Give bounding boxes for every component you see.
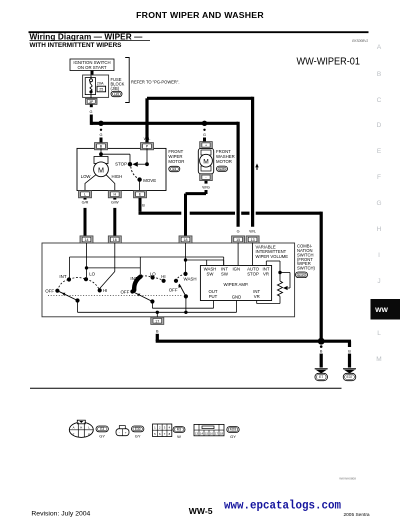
svg-text:WKWA0808: WKWA0808 xyxy=(339,477,356,481)
svg-text:Revision: July 2004: Revision: July 2004 xyxy=(31,511,90,518)
svg-text:B: B xyxy=(320,349,323,353)
svg-text:G: G xyxy=(90,110,93,114)
svg-text:17: 17 xyxy=(155,319,159,323)
svg-text:G: G xyxy=(203,133,206,137)
svg-text:WW-5: WW-5 xyxy=(189,506,213,516)
svg-text:C: C xyxy=(377,97,382,104)
svg-text:3P: 3P xyxy=(89,100,94,104)
svg-text:B: B xyxy=(142,203,145,207)
svg-text:W/G: W/G xyxy=(202,185,210,189)
svg-text:M3: M3 xyxy=(177,428,182,432)
svg-text:J: J xyxy=(377,278,380,285)
svg-text:G: G xyxy=(100,137,103,141)
svg-text:OFF: OFF xyxy=(169,288,178,293)
svg-text:WIPER VOLUME: WIPER VOLUME xyxy=(256,254,289,259)
svg-text:STOP: STOP xyxy=(115,162,127,167)
svg-text:14: 14 xyxy=(85,238,89,242)
svg-text:L: L xyxy=(84,193,86,197)
svg-text:W: W xyxy=(177,434,181,439)
svg-text:IGN: IGN xyxy=(232,267,240,272)
svg-text:WW-WIPER-01: WW-WIPER-01 xyxy=(297,57,361,68)
svg-text:A: A xyxy=(73,426,75,430)
svg-text:GY: GY xyxy=(99,433,105,438)
svg-text:P: P xyxy=(88,432,90,436)
svg-text:HI: HI xyxy=(161,274,165,279)
svg-text:H: H xyxy=(113,193,116,197)
svg-text:G/R: G/R xyxy=(82,200,89,204)
svg-text:E115: E115 xyxy=(298,273,305,277)
svg-text:(J/B): (J/B) xyxy=(111,86,120,91)
svg-text:W/L: W/L xyxy=(144,137,151,141)
svg-text:I: I xyxy=(378,252,380,259)
svg-text:GND: GND xyxy=(232,294,242,299)
svg-text:VR: VR xyxy=(254,294,260,299)
svg-text:E37: E37 xyxy=(346,375,352,379)
svg-text:SWITCH): SWITCH) xyxy=(297,266,316,271)
svg-text:15: 15 xyxy=(236,238,240,242)
svg-text:FRONT WIPER AND WASHER: FRONT WIPER AND WASHER xyxy=(136,10,264,20)
svg-text:VR: VR xyxy=(263,272,269,277)
svg-text:L15: L15 xyxy=(114,92,119,96)
svg-text:WW: WW xyxy=(375,307,388,314)
svg-text:REFER TO "PG-POWER".: REFER TO "PG-POWER". xyxy=(131,80,179,85)
svg-text:D: D xyxy=(377,122,382,129)
svg-text:MOTOR: MOTOR xyxy=(216,159,232,164)
svg-text:2005 Sentra: 2005 Sentra xyxy=(343,512,369,518)
svg-text:H: H xyxy=(377,226,382,233)
svg-text:E28: E28 xyxy=(219,167,225,171)
svg-text:INT: INT xyxy=(130,276,137,281)
svg-text:E3: E3 xyxy=(100,427,104,431)
svg-text:B: B xyxy=(377,71,381,78)
svg-text:LO: LO xyxy=(89,271,95,276)
svg-text:B: B xyxy=(348,349,351,353)
svg-text:ON OR START: ON OR START xyxy=(78,65,107,70)
svg-text:W/L: W/L xyxy=(249,230,256,234)
svg-text:16: 16 xyxy=(113,238,117,242)
svg-text:MOTOR: MOTOR xyxy=(168,159,184,164)
svg-text:M: M xyxy=(376,356,381,363)
svg-text:HIGH: HIGH xyxy=(112,174,123,179)
svg-text:E: E xyxy=(377,148,382,155)
svg-text:E3: E3 xyxy=(172,167,176,171)
svg-text:L: L xyxy=(377,330,381,337)
svg-text:-: - xyxy=(119,431,120,435)
svg-text:H: H xyxy=(80,426,82,430)
svg-text:STOP: STOP xyxy=(247,272,259,277)
svg-text:SW: SW xyxy=(207,272,215,277)
svg-text:+: + xyxy=(205,143,207,147)
svg-text:GY: GY xyxy=(230,434,236,439)
svg-text:G: G xyxy=(237,230,240,234)
svg-text:+: + xyxy=(125,431,127,435)
svg-text:MOVE: MOVE xyxy=(143,178,156,183)
svg-text:OFF: OFF xyxy=(45,289,54,294)
svg-text:25: 25 xyxy=(99,88,103,92)
svg-text:WASH: WASH xyxy=(184,276,197,281)
svg-text:18: 18 xyxy=(184,238,188,242)
svg-text:B: B xyxy=(156,330,159,334)
svg-text:G/W: G/W xyxy=(111,200,119,204)
svg-text:A: A xyxy=(377,44,382,51)
svg-text:M: M xyxy=(203,159,209,166)
svg-text:www.epcatalogs.com: www.epcatalogs.com xyxy=(224,498,341,512)
svg-text:OFF: OFF xyxy=(121,290,130,295)
svg-text:GY: GY xyxy=(135,433,141,438)
svg-text:F: F xyxy=(377,174,381,181)
svg-text:EKS00BVJ: EKS00BVJ xyxy=(352,39,368,43)
svg-text:SW: SW xyxy=(221,272,229,277)
svg-text:20A: 20A xyxy=(97,82,104,86)
svg-text:G: G xyxy=(376,200,381,207)
svg-text:WIPER AMP.: WIPER AMP. xyxy=(224,282,249,287)
svg-text:M: M xyxy=(98,165,104,174)
svg-text:13: 13 xyxy=(251,238,255,242)
svg-text:HI: HI xyxy=(103,288,107,293)
svg-text:T: T xyxy=(73,432,75,436)
svg-text:WITH INTERMITTENT WIPERS: WITH INTERMITTENT WIPERS xyxy=(30,42,123,49)
svg-text:PUT: PUT xyxy=(209,294,218,299)
svg-text:E30: E30 xyxy=(135,427,141,431)
svg-text:INT: INT xyxy=(59,274,66,279)
svg-text:E7: E7 xyxy=(319,375,323,379)
svg-text:M28: M28 xyxy=(230,428,236,432)
svg-text:LOW: LOW xyxy=(81,174,92,179)
